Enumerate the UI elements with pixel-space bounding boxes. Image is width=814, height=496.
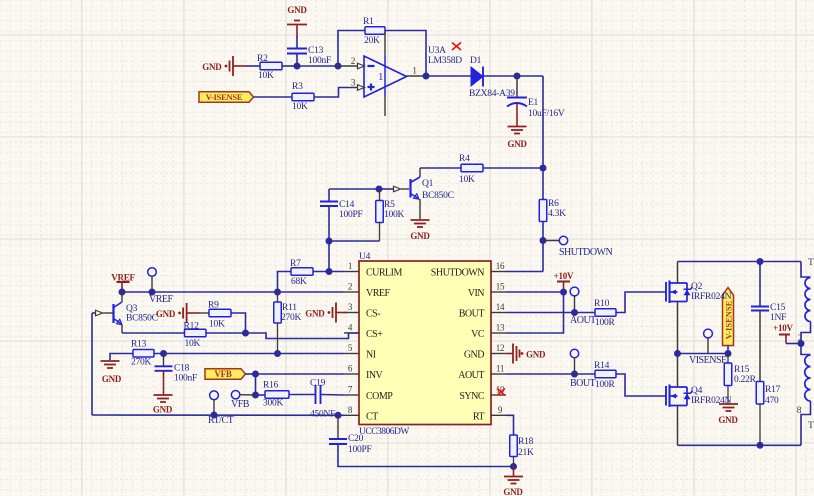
node junction (274, 289, 281, 296)
U4 pin 9 RT (491, 414, 506, 416)
node junction (149, 289, 156, 296)
U4 pin 6 INV (344, 373, 359, 375)
wire (296, 54, 298, 67)
wire to pin 7 (321, 394, 345, 397)
wire bottom rail right (678, 444, 802, 446)
svg-text:D1: D1 (470, 56, 482, 66)
svg-text:2: 2 (351, 57, 356, 67)
net label V-ISENSE vertical flag (723, 288, 734, 346)
ground symbol left (101, 360, 120, 362)
wire R1 right to output node (385, 31, 426, 76)
wire to U4 pin 16 (506, 271, 543, 273)
capacitor C15 (759, 262, 761, 307)
svg-text:BC850C: BC850C (422, 191, 454, 201)
capacitor C14 (328, 189, 330, 202)
svg-text:270K: 270K (131, 358, 152, 368)
node junction R4/rail (540, 165, 547, 172)
node junction D1/E1 (514, 73, 521, 80)
svg-text:1: 1 (348, 261, 352, 271)
svg-text:Q3: Q3 (126, 304, 138, 314)
node junction rail (211, 412, 218, 419)
svg-text:GND: GND (287, 5, 307, 15)
svg-text:13: 13 (496, 323, 505, 333)
svg-text:10K: 10K (459, 175, 475, 185)
svg-text:100PF: 100PF (348, 445, 372, 455)
U4 pin 12 GND (491, 353, 506, 355)
node junction BOUT (571, 371, 578, 378)
node junction R18/rail (510, 463, 517, 470)
svg-text:GND: GND (718, 415, 738, 425)
wire (206, 332, 246, 334)
wire C18 to ground (163, 371, 165, 395)
node junction pin1 (326, 268, 333, 275)
svg-text:270K: 270K (281, 313, 302, 323)
node junction NI/R11 (274, 350, 281, 357)
wire C20 down to bottom rail (338, 444, 514, 467)
svg-text:Q1: Q1 (422, 179, 434, 189)
svg-text:GND: GND (305, 308, 325, 318)
resistor R9 (209, 309, 231, 317)
wire jog to pin 4 (246, 333, 360, 339)
wire Q4 source (677, 406, 679, 446)
node junction base/R5 (376, 186, 383, 193)
svg-text:CS-: CS- (366, 309, 380, 320)
svg-text:AOUT: AOUT (458, 370, 484, 381)
resistor R4 (461, 164, 483, 172)
wire R13 left to ground (110, 354, 133, 361)
node junction R17/rail (757, 442, 764, 449)
wire pin 9 to R18 (506, 415, 514, 435)
svg-text:VIN: VIN (468, 288, 485, 299)
svg-text:RT: RT (473, 411, 485, 422)
U4 pin 1 CURLIM (344, 271, 359, 273)
U4 pin 3 CS- (344, 312, 359, 314)
resistor R18 (510, 435, 518, 457)
transistor Q3 BC850C (121, 292, 123, 302)
capacitor C19 (315, 385, 317, 404)
svg-text:68K: 68K (291, 277, 307, 287)
wire down to pin 1 (328, 241, 330, 272)
ground symbol below Q1 (411, 219, 430, 221)
ground symbol below C18 (154, 394, 173, 396)
node junction shutdown (540, 237, 547, 244)
resistor R15 (727, 354, 729, 364)
svg-text:300K: 300K (263, 399, 284, 409)
svg-text:VISENSE: VISENSE (689, 355, 727, 366)
svg-text:2: 2 (348, 282, 352, 292)
capacitor C13 (287, 48, 307, 50)
wire stub to shutdown pin circle (543, 240, 559, 242)
svg-text:BC850C: BC850C (126, 314, 158, 324)
svg-text:12: 12 (496, 343, 505, 353)
node junction CS+ (242, 330, 249, 337)
svg-text:R7: R7 (290, 259, 301, 269)
svg-text:VC: VC (471, 329, 485, 340)
wire R14 to Q4 gate (616, 374, 666, 396)
svg-text:IRFR024N: IRFR024N (691, 292, 732, 302)
connector pin circle VISENSE (704, 329, 713, 338)
svg-text:100nF: 100nF (308, 56, 331, 66)
wire (426, 75, 471, 77)
svg-text:AOUT: AOUT (570, 315, 596, 326)
capacitor C18 (163, 354, 165, 367)
svg-text:C15: C15 (770, 303, 786, 313)
svg-text:10K: 10K (185, 339, 201, 349)
wire (420, 167, 461, 169)
svg-text:VFB: VFB (231, 399, 250, 410)
svg-text:U3A: U3A (428, 46, 446, 56)
wire (329, 188, 379, 190)
svg-text:100R: 100R (595, 318, 616, 328)
wire Q1 base (379, 188, 393, 190)
wire VISENSE row (678, 353, 729, 355)
svg-text:Q4: Q4 (691, 386, 703, 396)
op-amp output pin 1 (407, 75, 427, 77)
wire Q1 emitter to ground (419, 199, 421, 219)
diode D1 BZX84-A39 (471, 67, 483, 86)
svg-text:100K: 100K (384, 210, 405, 220)
wire (483, 75, 517, 77)
svg-text:16: 16 (496, 261, 505, 271)
wire (282, 65, 297, 67)
power ground GND at pin 12 (506, 353, 513, 355)
U4 pin 16 SHUTDOWN (491, 271, 506, 273)
resistor R7 (291, 268, 313, 276)
wire (246, 65, 260, 67)
svg-text:R3: R3 (292, 82, 303, 92)
svg-text:4.3K: 4.3K (548, 209, 566, 219)
resistor R10 (595, 309, 616, 317)
resistor R17 (756, 382, 764, 405)
svg-text:VFB: VFB (214, 369, 231, 379)
resistor R2 (260, 62, 282, 70)
svg-text:GND: GND (153, 405, 173, 415)
node junction C20 (335, 412, 342, 419)
svg-text:1: 1 (412, 67, 417, 77)
U4 pin 15 VIN (491, 291, 506, 293)
svg-text:10K: 10K (292, 102, 308, 112)
svg-text:R14: R14 (594, 361, 610, 371)
svg-text:Q2: Q2 (691, 282, 703, 292)
wire R7 left to VREF row (278, 272, 292, 293)
resistor R3 (292, 93, 314, 101)
svg-text:2: 2 (798, 334, 803, 344)
wire bottom rail (92, 414, 344, 416)
svg-text:R17: R17 (765, 385, 781, 395)
svg-text:R5: R5 (384, 200, 395, 210)
resistor R14 (595, 370, 616, 378)
svg-text:UCC3806DW: UCC3806DW (359, 427, 409, 437)
ground symbol below E1 (516, 104, 518, 126)
signal direction arrow (394, 186, 401, 192)
svg-text:10K: 10K (209, 320, 225, 330)
svg-text:+10V: +10V (773, 323, 793, 333)
svg-text:14: 14 (496, 302, 505, 312)
svg-text:R9: R9 (208, 301, 219, 311)
resistor R11 (277, 292, 279, 302)
svg-text:15: 15 (496, 282, 505, 292)
wire (254, 96, 293, 98)
svg-text:C13: C13 (308, 46, 324, 56)
no-ERC marker on pin 10 SYNC (497, 389, 505, 396)
svg-text:GND: GND (202, 62, 222, 72)
svg-text:8: 8 (797, 406, 802, 416)
node output junction (423, 73, 430, 80)
wire NI row (154, 353, 344, 355)
wire jog to op-amp pin 3 (314, 88, 352, 98)
op-amp pin 2 input arrow (358, 63, 365, 69)
wire (517, 75, 543, 77)
wire left vertical (91, 313, 93, 415)
wire (289, 394, 316, 396)
svg-text:COMP: COMP (366, 391, 393, 402)
wire R10 to Q2 gate (616, 292, 666, 313)
U4 pin 5 NI (344, 353, 359, 355)
svg-text:450NF: 450NF (310, 410, 335, 420)
U4 pin 8 CT (344, 414, 359, 416)
IC U4 UCC3806DW body (359, 261, 491, 425)
svg-text:20K: 20K (364, 36, 380, 46)
connector pin circle RT/CT (210, 391, 219, 400)
capacitor E1 polarized (516, 76, 518, 97)
resistor R6 (539, 200, 547, 222)
svg-text:SHUTDOWN: SHUTDOWN (431, 268, 484, 279)
node junction feedback (335, 63, 342, 70)
transistor Q2 IRFR024N (665, 282, 667, 302)
transformer pin 8 wire (801, 401, 811, 445)
node junction C15 top (757, 258, 764, 265)
wire top rail (678, 261, 802, 263)
node junction COMP (252, 392, 259, 399)
svg-text:3: 3 (351, 79, 356, 89)
svg-text:CT: CT (366, 411, 378, 422)
svg-text:21K: 21K (518, 448, 534, 458)
wire VREF row (122, 291, 344, 293)
wire (297, 65, 338, 67)
wire down to COMP row (255, 374, 257, 395)
U4 pin 4 CS+ (344, 332, 359, 334)
connector pin circle SHUTDOWN (559, 236, 567, 244)
U4 pin 14 BOUT (491, 312, 506, 314)
node junction transformer tap (798, 340, 805, 347)
wire to op-amp pin 2 (338, 65, 358, 67)
wire R1 left to inverting node (338, 31, 365, 67)
svg-text:R10: R10 (594, 299, 610, 309)
svg-text:C18: C18 (174, 363, 190, 373)
U4 pin 2 VREF (344, 291, 359, 293)
connector pin circle BOUT (570, 349, 578, 357)
connector pin circle AOUT (570, 287, 579, 296)
node junction INV (252, 371, 259, 378)
transistor Q1 BC850C (419, 168, 421, 177)
svg-text:+10V: +10V (554, 271, 574, 281)
svg-text:V-ISENSE: V-ISENSE (206, 92, 243, 102)
svg-text:R12: R12 (184, 322, 200, 332)
svg-text:11: 11 (496, 364, 504, 374)
node junction R15 (725, 350, 732, 357)
svg-text:C19: C19 (310, 379, 326, 389)
wire Q2 source (677, 302, 679, 354)
capacitor C20 (337, 415, 339, 439)
wire Q3 emitter (121, 325, 123, 334)
svg-text:E1: E1 (528, 98, 539, 108)
svg-text:T: T (808, 258, 814, 268)
ground symbol below R15 (719, 403, 738, 405)
svg-text:SYNC: SYNC (459, 391, 485, 402)
svg-text:R18: R18 (518, 437, 534, 447)
svg-text:R1: R1 (363, 17, 374, 27)
svg-text:R16: R16 (263, 381, 279, 391)
op-amp U3A (364, 56, 407, 97)
resistor R1 (365, 27, 385, 35)
wire (296, 36, 298, 49)
wire VIN row (506, 291, 564, 293)
svg-text:R15: R15 (734, 365, 750, 375)
svg-text:R2: R2 (257, 54, 268, 64)
resistor R16 (256, 394, 266, 396)
svg-text:100R: 100R (595, 380, 616, 390)
net label V-ISENSE flag (199, 92, 254, 103)
svg-text:10uF/16V: 10uF/16V (528, 109, 565, 119)
transistor Q4 IRFR024N (665, 386, 667, 406)
transformer T1 primary upper winding (801, 262, 811, 278)
node junction R13/C18 (160, 350, 167, 357)
svg-text:BOUT: BOUT (459, 309, 485, 320)
ground symbol bottom (513, 467, 515, 477)
wire vertical main rail (542, 76, 544, 200)
node junction VREF (119, 289, 126, 296)
resistor R13 (133, 350, 154, 358)
wire (759, 311, 761, 382)
wire R7 right (313, 271, 344, 273)
op-amp pin 3 input arrow (358, 85, 365, 91)
svg-text:GND: GND (503, 487, 523, 496)
wire Q3 base (92, 312, 95, 314)
U4 pin 10 SYNC (491, 394, 506, 396)
wire AOUT row (506, 312, 595, 314)
svg-text:CS+: CS+ (366, 329, 383, 340)
wire (542, 222, 544, 272)
svg-text:1: 1 (378, 71, 383, 83)
svg-text:BOUT: BOUT (570, 378, 596, 389)
svg-text:INV: INV (366, 370, 384, 381)
svg-text:VREF: VREF (366, 288, 391, 299)
wire INV row (256, 373, 345, 375)
svg-text:10K: 10K (258, 71, 274, 81)
svg-text:100PF: 100PF (339, 210, 363, 220)
node junction VIN (560, 289, 567, 296)
U4 pin 11 AOUT (491, 373, 506, 375)
svg-text:GND: GND (156, 309, 176, 319)
svg-text:100nF: 100nF (174, 373, 197, 383)
svg-text:R11: R11 (282, 303, 297, 313)
U4 pin 13 VC (491, 332, 506, 334)
node junction AOUT (571, 309, 578, 316)
wire Q2 drain (677, 262, 679, 284)
no-ERC marker (452, 43, 461, 51)
svg-text:V-ISENSE: V-ISENSE (724, 300, 734, 339)
svg-text:1NF: 1NF (770, 313, 786, 323)
svg-text:470: 470 (765, 396, 779, 406)
wire (786, 343, 801, 345)
resistor R5 (379, 189, 381, 201)
svg-text:0.22R: 0.22R (734, 375, 757, 385)
svg-text:GND: GND (507, 139, 527, 149)
wire VC to VIN node (506, 292, 564, 333)
svg-text:T: T (808, 421, 814, 431)
wire Q4 drain (677, 354, 679, 388)
node junction C14/R5 (326, 238, 333, 245)
svg-text:GND: GND (102, 374, 122, 384)
transformer pin 2 tap wire (801, 322, 811, 344)
svg-text:U4: U4 (359, 252, 371, 262)
wire BOUT row (506, 373, 595, 375)
svg-text:C20: C20 (348, 434, 364, 444)
svg-text:LM358D: LM358D (428, 56, 462, 66)
svg-text:VREF: VREF (149, 294, 174, 305)
svg-text:C14: C14 (339, 200, 355, 210)
svg-text:GND: GND (464, 350, 484, 361)
U4 pin 7 COMP (344, 394, 359, 396)
connector pin circle VREF (148, 268, 157, 277)
svg-text:CURLIM: CURLIM (366, 268, 403, 279)
svg-text:GND: GND (526, 350, 546, 360)
wire R9 to CS+ node (231, 313, 246, 333)
svg-text:R4: R4 (459, 154, 470, 164)
wire CS+ row (122, 332, 185, 334)
svg-text:SHUTDOWN: SHUTDOWN (559, 247, 612, 258)
connector pin circle VFB (231, 391, 239, 399)
svg-text:R13: R13 (131, 340, 147, 350)
wire (483, 167, 543, 169)
wire (246, 373, 256, 375)
net label VFB flag (205, 369, 246, 380)
node junction C13/R2 (294, 63, 301, 70)
svg-text:R6: R6 (548, 199, 559, 209)
op-amp U3A power pin line (384, 31, 386, 56)
svg-text:GND: GND (410, 231, 430, 241)
wire (329, 240, 380, 242)
transformer T1 lower winding (801, 344, 811, 355)
node junction VISENSE (674, 350, 681, 357)
svg-text:NI: NI (366, 350, 376, 361)
resistor R12 (185, 329, 207, 337)
